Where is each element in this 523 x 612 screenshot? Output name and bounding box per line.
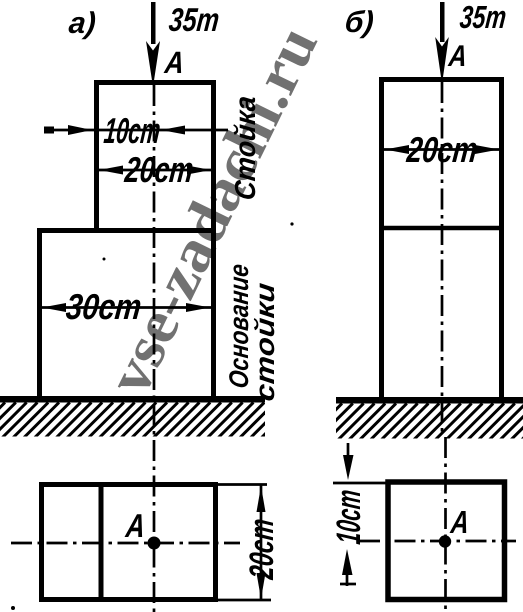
speckle dot 1 bbox=[290, 222, 293, 225]
label 20cm figure b bbox=[406, 137, 477, 163]
centerline figure b lower bbox=[444, 437, 447, 612]
label Osnovanie stojki line 2 (rotated) bbox=[254, 283, 274, 401]
plan a extension line bottom bbox=[218, 599, 271, 602]
dimension 10cm arrow right bbox=[68, 125, 92, 135]
plan view a inner line bbox=[99, 482, 104, 602]
force arrowhead figure b bbox=[435, 37, 449, 84]
column/base joint line figure b bbox=[379, 226, 504, 231]
label A figure b bbox=[448, 45, 465, 66]
column figure b bbox=[382, 80, 502, 400]
label a) bbox=[69, 11, 96, 39]
ground hatch left bbox=[0, 403, 297, 438]
dimension 20cm arrow left figure b bbox=[385, 145, 409, 154]
ground hatch right bbox=[306, 404, 523, 440]
plan view b horizontal centerline bbox=[359, 540, 516, 543]
dimension 10cm start blob bbox=[44, 127, 54, 134]
force line F=35t figure a bbox=[151, 2, 156, 44]
base (osnovanie) top edge figure a bbox=[37, 228, 216, 233]
plan view a horizontal centerline bbox=[11, 542, 240, 545]
dimension 10cm line figure a bbox=[44, 129, 228, 132]
plan view a center dot bbox=[148, 537, 161, 550]
label b) bbox=[346, 10, 373, 38]
ground line right bbox=[336, 397, 523, 404]
ground line left bbox=[0, 396, 265, 403]
dimension 20cm arrow right bbox=[187, 166, 211, 175]
base right edge figure a bbox=[211, 228, 216, 399]
label 35t figure b bbox=[460, 6, 506, 29]
dimension 20cm line figure a bbox=[96, 169, 214, 172]
plan a dimension vertical line bbox=[260, 485, 263, 600]
label 10cm figure a bbox=[103, 118, 159, 143]
plan b extension line top bbox=[333, 482, 390, 485]
label 20cm figure a bbox=[124, 157, 193, 183]
force line F=35t figure b bbox=[440, 2, 445, 42]
dimension 20cm arrow left bbox=[99, 166, 123, 175]
centerline figure b upper bbox=[441, 82, 444, 437]
plan b dimension tail tick bbox=[340, 583, 356, 586]
dimension 20cm arrow right figure b bbox=[475, 145, 499, 154]
plan a extension line top bbox=[218, 483, 267, 486]
plan a dimension arrow down bbox=[257, 573, 266, 599]
plan view b center dot bbox=[439, 535, 451, 547]
plan view b square bbox=[388, 482, 505, 600]
force arrowhead figure a bbox=[146, 41, 160, 87]
dimension 30cm arrow right bbox=[186, 303, 210, 312]
dimension 10cm arrow left bbox=[161, 126, 185, 135]
label 10cm plan b (rotated) bbox=[336, 490, 360, 544]
plan a dimension arrow up bbox=[257, 486, 266, 512]
plan view a rectangle bbox=[42, 485, 216, 600]
plan b dimension arrow up tail bbox=[346, 570, 349, 586]
speckle dot 3 bbox=[103, 258, 106, 261]
label Stojka (rotated) bbox=[233, 97, 255, 199]
label 20cm plan a (rotated) bbox=[249, 519, 273, 580]
centerline figure a bbox=[153, 85, 156, 612]
plan b dimension arrow down head bbox=[343, 455, 354, 480]
speckle dot 2 bbox=[11, 606, 15, 610]
label Osnovanie stojki line 1 (rotated) bbox=[229, 265, 248, 388]
plan b dimension arrow down line bbox=[347, 443, 350, 458]
label 30cm figure a bbox=[66, 294, 140, 320]
label A plan a bbox=[125, 514, 143, 537]
label A figure a bbox=[164, 52, 182, 73]
dimension 20cm line figure b bbox=[382, 148, 501, 151]
dimension 30cm arrow left bbox=[42, 303, 66, 312]
label A plan b bbox=[450, 511, 467, 533]
dimension 30cm line figure a bbox=[41, 306, 212, 309]
watermark vse-zadachi.ru bbox=[118, 31, 318, 387]
label 35t figure a bbox=[169, 8, 219, 31]
base left edge figure a bbox=[37, 228, 42, 399]
plan b dimension arrow up head bbox=[342, 549, 353, 575]
column (stojka) figure a bbox=[97, 83, 214, 229]
